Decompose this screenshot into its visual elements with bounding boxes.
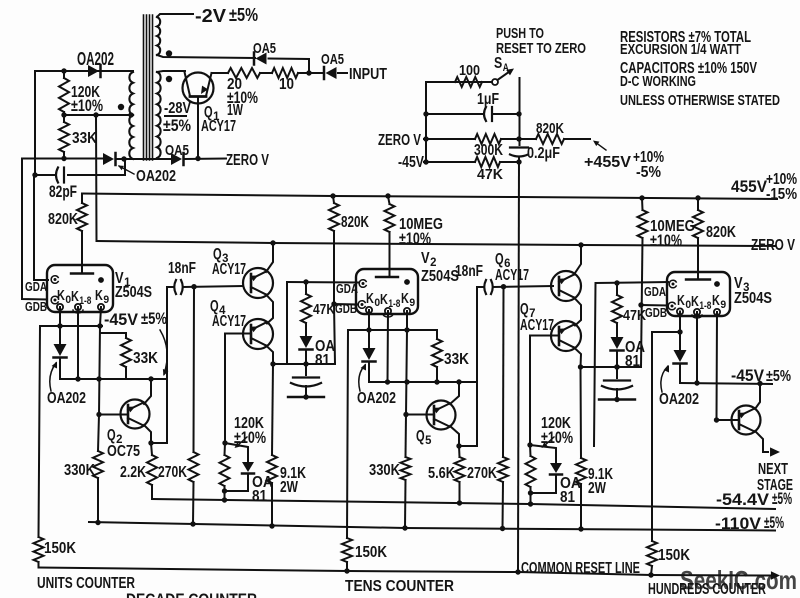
svg-text:OA202: OA202 [77,49,114,69]
svg-text:9: 9 [409,297,415,309]
transistor Q4 ACY17 [243,319,273,349]
diode OA202 V1 reset [59,326,61,344]
resistor 150K stage2 [347,330,348,538]
common reset bus [39,568,773,576]
svg-text:OA5: OA5 [253,41,276,57]
svg-text:150K: 150K [658,546,690,564]
svg-text:81: 81 [252,487,267,505]
bus -110V [89,522,775,531]
resistor 820K V2 bias [330,193,335,198]
Q7 base vertical [529,336,531,446]
resistor 820K anode V1 [81,194,83,204]
leader arc -45V [160,330,167,374]
svg-text:33K: 33K [72,129,97,147]
wire 18nF left to Q2 emitter [166,287,168,443]
transistor Q5 [427,401,456,430]
svg-text:9: 9 [103,294,109,306]
svg-text:GDA: GDA [336,281,358,296]
svg-text:±5%: ±5% [141,309,167,328]
reset vertical line [519,78,521,145]
transformer primary winding upper [129,72,133,115]
svg-text:5: 5 [425,434,432,447]
resistor 120K [59,78,69,112]
Q5 emitter [450,426,459,446]
wire 47K row [424,161,475,163]
diode OA5 zero-v [171,153,182,165]
svg-text:OA202: OA202 [659,390,699,408]
wire 300K row [424,138,475,140]
Q7 base wire [530,335,559,337]
GDA-3 long vertical [594,283,596,446]
svg-text:1μF: 1μF [477,90,499,108]
label +455V +10% -5% with arrow [595,142,606,150]
junction dot [306,70,311,75]
cathode bias wire stage3 to -45V [680,383,772,384]
capacitor guide V2 [293,376,319,378]
cathode bias wire stage2 [369,381,477,383]
svg-text:ACY17: ACY17 [495,266,529,284]
transistor Q3 ACY17 [243,268,273,298]
svg-text:UNLESS OTHERWISE STATED: UNLESS OTHERWISE STATED [620,92,780,109]
svg-text:INPUT: INPUT [349,65,387,83]
emitter node wire stage2-couple [273,363,335,365]
capacitor 82pF [35,174,54,176]
wire top feedback [35,70,133,72]
Q6 collector to zero bus [574,245,581,275]
svg-text:GDB: GDB [645,305,667,320]
resistor 120K stage1 [222,440,227,445]
Q4 base wire [225,333,251,335]
diode OA202 V2 reset [368,330,370,348]
svg-text:±5%: ±5% [163,116,191,135]
svg-text:47K: 47K [623,308,646,324]
svg-text:ACY17: ACY17 [212,312,246,330]
svg-text:1-8: 1-8 [699,300,711,312]
svg-text:K: K [57,288,65,304]
svg-text:ZERO V: ZERO V [751,236,795,254]
svg-text:100: 100 [459,63,480,79]
transformer primary winding lower [129,115,133,159]
transformer phasing dot [118,104,124,110]
diode OA5 input [326,67,337,79]
Q8 collector [755,384,760,410]
diode OA202 top [88,65,99,77]
left vertical wire to GDA [34,71,36,175]
svg-text:OA5: OA5 [321,52,344,68]
47K guide chain V2 [287,281,359,284]
svg-text:±10%: ±10% [650,231,682,250]
arrow NEXT STAGE [763,451,768,453]
V2 pin chains [368,310,370,330]
transformer phasing dot [166,76,172,82]
svg-text:OA202: OA202 [136,167,176,185]
resistor 270K stage2 [498,457,508,482]
svg-text:TENS COUNTER: TENS COUNTER [345,577,454,595]
svg-text:81: 81 [625,352,640,370]
svg-text:300K: 300K [474,141,503,159]
resistor 10MEG V2 [385,193,390,198]
svg-text:V: V [421,249,430,267]
svg-text:820K: 820K [48,210,78,228]
svg-text:ACY17: ACY17 [212,260,246,278]
resistor 33K stage2 [432,339,442,367]
svg-text:K: K [691,294,699,310]
bus ZERO V rail [97,241,776,246]
resistor 100 [455,77,482,87]
svg-text:UNITS COUNTER: UNITS COUNTER [37,574,135,592]
emitter node wire stage2 [459,445,477,447]
transformer secondary winding top-right [157,17,160,55]
svg-text:-28V: -28V [164,99,191,117]
svg-text:820K: 820K [536,121,564,137]
svg-text:EXCURSION 1/4 WATT: EXCURSION 1/4 WATT [620,41,742,58]
svg-text:47K: 47K [477,167,503,183]
resistor 2.2K [151,443,152,455]
svg-text:GDA: GDA [25,279,47,294]
svg-text:5.6K: 5.6K [428,464,455,482]
svg-text:81: 81 [315,351,330,369]
svg-text:±5%: ±5% [766,367,791,385]
svg-text:±10%: ±10% [399,229,431,248]
resistor 820K to +455V [536,134,564,144]
tube V2 Z504S [356,269,418,314]
svg-text:270K: 270K [158,463,187,481]
svg-text:RESET TO ZERO: RESET TO ZERO [496,41,586,57]
svg-text:-2V: -2V [195,6,226,26]
svg-text:OC75: OC75 [107,442,140,460]
Q6 emitter to Q7 collector [574,298,581,326]
bus +455V rail [82,194,777,200]
transistor Q2 OC75 [121,400,150,429]
svg-text:-5%: -5% [636,164,661,181]
svg-text:150K: 150K [355,543,387,561]
svg-text:ZERO V: ZERO V [226,151,269,169]
svg-text:Q: Q [416,427,425,445]
svg-text:-54.4V: -54.4V [716,490,770,509]
svg-text:OA5: OA5 [165,143,189,159]
wire GDB V1 [22,159,47,300]
svg-text:K: K [95,288,103,304]
Q4 emitter [266,346,273,365]
svg-text:K: K [366,291,374,307]
svg-text:0.2μF: 0.2μF [527,144,560,162]
svg-text:±10%: ±10% [71,96,103,115]
svg-text:2.2K: 2.2K [120,463,146,481]
wire tap [64,114,133,116]
svg-text:820K: 820K [341,213,369,231]
svg-text:ZERO V: ZERO V [378,131,421,149]
svg-text:+455V: +455V [584,153,631,171]
transformer phasing dot [166,50,172,56]
transistor Q8 next stage [732,406,761,435]
svg-text:-15%: -15% [766,186,797,203]
svg-text:PUSH TO: PUSH TO [496,26,544,42]
GDB wire V2 [334,303,358,306]
svg-text:SeekIC.com: SeekIC.com [680,565,797,595]
transistor Q7 ACY17 [551,321,581,351]
cathode bias wire [60,378,166,380]
wire 18nF-2 left vertical [476,287,478,446]
svg-text:±5%: ±5% [772,489,792,508]
diode OA81 stage2 [530,445,556,463]
svg-text:K: K [380,292,388,308]
svg-text:S: S [494,55,502,72]
svg-text:-110V: -110V [715,514,762,533]
Q8 emitter [755,431,763,452]
47K guide chain V3 [596,282,669,283]
resistor 270K [189,452,199,482]
Q2 base wire [99,414,128,416]
diode OA81 stage-3 guide [611,337,624,349]
svg-text:33K: 33K [444,350,469,368]
wire V2 GDB chain down [334,304,335,364]
resistor 33K stage1 [100,332,126,334]
Q7 emitter [574,348,581,368]
transformer secondary winding right-lower [157,72,161,158]
svg-text:OA202: OA202 [47,389,86,407]
svg-text:ACY17: ACY17 [520,316,554,334]
svg-text:1W: 1W [227,101,244,119]
svg-text:2W: 2W [588,479,607,497]
resistor 150K stage3 [651,332,653,541]
svg-text:GDA: GDA [644,284,666,299]
svg-text:455V: 455V [731,177,768,196]
svg-text:Z504S: Z504S [734,289,772,307]
svg-text:-45V: -45V [731,366,765,385]
left vertical of reset loop [425,82,427,162]
svg-text:K: K [71,289,79,305]
transistor Q1 ACY17 [183,73,214,104]
svg-text:10: 10 [279,75,294,93]
resistor 330K [98,415,99,452]
vertical to zero bus [95,115,98,241]
svg-text:K: K [401,291,409,307]
V1 pin wires and -45V row [59,307,61,326]
capacitor guide V3 [604,379,630,381]
wire to -2V [157,14,193,17]
GDB wire V3 [641,304,668,307]
Q8 base wire [717,419,740,421]
svg-text:270K: 270K [467,464,497,482]
emitter node wire [151,442,167,444]
tube V3 Z504S [667,272,730,316]
svg-text:K: K [677,293,685,309]
svg-text:18nF: 18nF [455,262,483,280]
svg-text:150K: 150K [44,539,76,557]
diode OA81 stage-2 guide [300,336,313,348]
resistor 10MEG V3 [639,195,644,200]
transistor Q6 ACY17 [551,271,581,301]
Q3 collector to zero bus [266,243,273,272]
svg-text:330K: 330K [369,461,400,479]
resistor 9.1K 2W stage1 [272,364,273,455]
diode OA5 input-top [256,53,267,65]
svg-text:18nF: 18nF [168,259,196,277]
Q2 emitter [144,425,151,443]
zero-volt wire with diodes [22,158,102,160]
diode OA202 V3 reset [679,332,681,350]
V3 pin chains [679,312,681,333]
bus -54.4V [152,499,775,509]
capacitor 1uF [426,113,483,115]
wire 270K feed [193,287,196,452]
svg-text:DECADE COUNTER: DECADE COUNTER [126,590,257,598]
tube V1 Z504S [47,265,113,312]
svg-text:K: K [712,293,720,309]
resistor 9.1K 2W stage2 [580,367,583,458]
svg-text:2W: 2W [280,478,299,496]
svg-text:COMMON RESET LINE: COMMON RESET LINE [521,559,640,577]
capacitor 0.2uF [510,146,528,148]
svg-text:±5%: ±5% [229,5,258,25]
resistor 33K [59,122,69,152]
diode OA202 lower [103,153,114,165]
svg-text:Z504S: Z504S [115,283,152,301]
svg-text:82pF: 82pF [49,182,77,201]
svg-text:OA202: OA202 [357,389,396,407]
Q3 emitter to Q4 collector [266,295,273,324]
svg-text:±5%: ±5% [764,513,784,532]
svg-text:D-C WORKING: D-C WORKING [620,73,696,90]
resistor 5.6K [458,446,461,457]
svg-text:81: 81 [560,488,575,506]
resistor 150K stage1 [39,326,41,537]
svg-text:ACY17: ACY17 [201,117,236,135]
svg-text:1-8: 1-8 [388,298,400,310]
emitter node wire stage3-couple [581,366,642,368]
wire to INPUT [338,72,347,74]
resistor 820K V3 [695,195,700,200]
svg-text:330K: 330K [64,461,95,479]
Q4 base vertical [224,334,226,444]
wire winding to Q1 [157,71,185,72]
svg-text:9: 9 [720,299,726,311]
resistor 120K stage2 [527,442,532,447]
Q5 collector [450,382,459,404]
svg-text:1-8: 1-8 [79,295,91,307]
svg-text:33K: 33K [133,349,158,367]
transformer core [143,15,145,160]
Q5 base wire [406,414,434,416]
diode OA81 stage1 [225,443,248,462]
svg-text:-45V: -45V [398,153,424,171]
wire 270K-2 feed [502,287,505,457]
resistor 20 (emitter) [228,68,260,78]
svg-text:Z504S: Z504S [421,267,459,285]
svg-text:-45V: -45V [104,310,139,329]
svg-text:GDB: GDB [25,299,47,314]
wire winding to OA5 diode [157,55,255,58]
Q2 collector [144,379,151,404]
resistor 330K stage2 [405,415,408,458]
node dot [61,68,66,73]
svg-text:820K: 820K [706,223,736,241]
resistor 10 [272,68,298,78]
